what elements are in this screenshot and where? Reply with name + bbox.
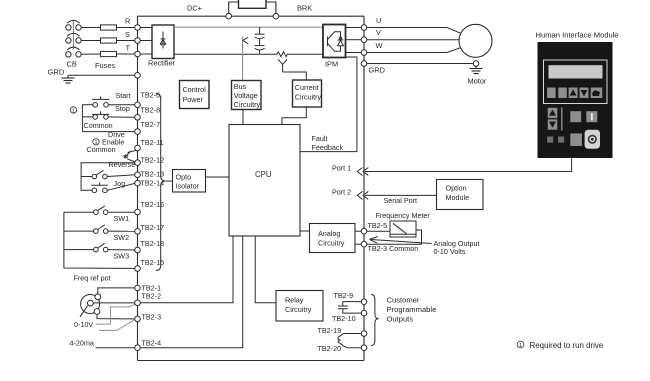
wire IPM to terminal V [346,39,362,41]
note circled 1 start stop [70,107,76,115]
svg-text:Common: Common [84,121,113,130]
svg-text:Customer: Customer [387,296,420,305]
wire current sense to current circuitry [283,72,307,80]
precharge tap wire gray [242,37,244,81]
svg-text:4-20ma: 4-20ma [70,339,94,348]
svg-text:TB2-20: TB2-20 [318,344,342,353]
capacitor link wire [259,39,261,46]
terminal TB2-2 [135,300,141,306]
svg-text:T: T [126,43,131,52]
wire 0-10V to TB2-2 [96,304,135,324]
relay contact TB2-9 TB2-10 [338,302,361,314]
svg-text:Motor: Motor [468,77,487,86]
HIM small key 2 [558,137,564,143]
terminal TB2-4 [135,345,141,351]
terminal TB2-3 right [361,241,367,247]
svg-text:GRD: GRD [369,66,385,75]
IPM IGBT symbol [328,32,344,52]
HIM display key 3 up arrow [569,88,578,99]
svg-text:Serial Port: Serial Port [384,196,418,205]
svg-text:TB2-3 Common: TB2-3 Common [368,244,419,253]
wire IPM to terminal W [346,52,362,54]
wire fuse 2 to terminal S [117,40,135,42]
svg-text:CB: CB [67,60,77,69]
svg-text:TB2-11: TB2-11 [141,138,164,147]
wire SW1 to TB2-16 [108,211,135,213]
capacitor C1 [255,34,265,39]
wire bottom rail of drive enclosure [138,360,365,362]
wire DC+ bus rectifier to IPM [174,26,323,28]
svg-text:Reverse: Reverse [109,160,136,169]
wire pot wiper to TB2-2 [93,302,134,304]
terminal TB2-10 [361,310,367,316]
rectifier SCR symbol [160,32,165,49]
start pushbutton [92,96,109,107]
terminal TB2-15 [135,266,141,272]
svg-text:TB2-2: TB2-2 [142,292,162,301]
svg-text:TB2-7: TB2-7 [141,120,161,129]
wire pot bottom to TB2-3 [97,314,135,319]
fault feedback wire IPM to CPU [300,57,357,152]
terminal U [361,25,367,31]
svg-text:Circuitry: Circuitry [234,100,261,109]
HIM display key 1 [547,88,556,99]
wire start to TB2-6 [108,104,134,106]
HIM display key 2 [558,88,567,99]
svg-text:SW2: SW2 [114,233,130,242]
box Option Module [437,180,484,210]
terminal TB2-12 [135,160,141,166]
svg-text:Start: Start [116,91,131,100]
terminal W [361,50,367,56]
circuit breaker CB pole 1 [66,20,82,30]
ground symbol motor [470,66,483,73]
svg-text:TB2-13: TB2-13 [141,170,165,179]
circuit breaker CB pole 3 [66,47,82,57]
svg-text:TB2-17: TB2-17 [141,223,165,232]
wire common to TB2-7 [82,131,134,133]
svg-text:1: 1 [519,343,522,349]
svg-text:Power: Power [183,95,204,104]
svg-text:Option: Option [446,184,467,193]
wire right rail of drive enclosure [363,16,365,360]
wire 0-10V to TB2-3 [99,320,135,331]
capacitor C2 [255,46,265,50]
wire DC+ terminal to brake resistor [229,2,239,13]
svg-text:TB2-16: TB2-16 [141,200,165,209]
pot terminal bottom [94,309,100,315]
terminal TB2-11 [135,145,141,151]
wire SW2 to TB2-17 [108,230,135,232]
frequency meter needle [393,223,407,234]
svg-text:1: 1 [72,108,75,114]
terminal T [135,51,141,57]
HIM jog key [585,130,600,149]
terminal R [135,25,141,31]
SW1 switch [94,206,108,215]
svg-text:Feedback: Feedback [312,143,344,152]
wire DC- bus shunt to IPM [287,53,323,55]
svg-text:U: U [376,16,381,25]
terminal TB2-1 [135,285,141,291]
wire stop to TB2-8 [108,116,134,118]
wire frequency meter return to TB2-3 [367,230,422,244]
wire DC- bus rectifier to shunt [174,53,277,55]
svg-text:SW1: SW1 [114,214,130,223]
svg-text:0-10V: 0-10V [74,320,93,329]
drive enable contact [123,150,137,162]
freq ref potentiometer body [81,295,100,314]
note circled 1 required [517,341,524,349]
svg-text:SW3: SW3 [114,252,130,261]
svg-text:Port 1: Port 1 [332,163,351,172]
IPM box [323,25,346,58]
terminal TB2-18 [135,247,141,253]
box Relay Circuitry [276,291,323,322]
circuit breaker CB pole 2 [66,33,82,43]
box Analog Circuitry [310,224,356,253]
svg-text:Outputs: Outputs [387,315,414,324]
wire terminal T to rectifier [140,53,152,55]
wire terminal S to rectifier [140,40,152,42]
wire opto isolator to CPU [206,176,230,178]
wire CB pole1 to fuse 1 [81,27,100,29]
wire CPU to analog circuitry [300,230,310,232]
analog output annotation arrow [370,237,432,244]
wire CB pole2 to fuse 2 [81,40,100,42]
wire SW common bus to TB2-15 [64,212,135,268]
svg-text:Fault: Fault [312,134,328,143]
svg-text:Rectifier: Rectifier [148,58,176,67]
wire terminal R to rectifier [140,27,152,29]
svg-text:DC+: DC+ [187,4,202,13]
terminal TB2-7 [135,129,141,135]
wire pot top to TB2-1 [98,288,135,294]
box Opto Isolator [173,170,206,193]
svg-text:V: V [376,28,381,37]
wire V to motor [367,39,459,41]
brace TB2 input group [156,94,166,271]
svg-text:TB2-8: TB2-8 [141,106,161,115]
capacitor C2 bottom wire [259,50,261,54]
wire Port 1 line to HIM [365,171,572,173]
wire TB2-2 to CPU [140,236,233,303]
HIM down key [548,119,558,129]
terminal TB2-3 [135,316,141,322]
svg-text:TB2-4: TB2-4 [142,338,162,347]
HIM display key 5 hand [591,88,603,99]
wire 4-20ma to TB2-4 [96,347,135,349]
terminal GRD right [361,61,367,67]
svg-text:TB2-10: TB2-10 [332,314,356,323]
pot terminal top [95,294,101,300]
frequency meter box [390,221,416,237]
wire CPU to relay circuitry [255,236,276,303]
wire jog to TB2-14 [107,183,135,190]
svg-text:Control: Control [183,85,207,94]
precharge contact symbol [243,37,248,44]
svg-text:GRD: GRD [48,68,65,77]
fuse F1 [101,25,117,30]
wire IPM to terminal U [346,27,362,29]
motor ground terminal [473,61,479,67]
wire reverse jog common to TB2-12 [81,163,135,191]
terminal TB2-13 [135,172,141,178]
svg-text:TB2-5: TB2-5 [368,221,388,230]
svg-text:R: R [125,16,130,25]
HIM display key 4 down arrow [580,88,589,99]
pot wiper terminal [88,300,94,306]
terminal TB2-6 [135,102,141,108]
svg-text:TB2-19: TB2-19 [318,326,342,335]
svg-text:TB2-12: TB2-12 [141,155,165,164]
wire TB2-4 to CPU [140,236,242,348]
svg-text:Circuitry: Circuitry [285,305,312,314]
svg-text:Programmable: Programmable [387,305,437,314]
terminal TB2-20 [361,345,367,351]
terminal TB2-14 [135,180,141,186]
svg-text:Stop: Stop [115,104,130,113]
wire W to motor [367,47,462,52]
svg-text:IPM: IPM [325,59,338,68]
svg-text:Port 2: Port 2 [332,187,351,196]
svg-text:BRK: BRK [297,4,312,13]
SW3 switch [94,243,108,252]
wire left rail of drive enclosure [137,16,139,360]
HIM up key [548,108,558,118]
port 2 arrows [357,191,368,199]
HIM LCD display [549,65,603,78]
svg-text:Current: Current [295,83,319,92]
svg-text:TB2-9: TB2-9 [334,291,354,300]
SW2 switch [94,225,108,234]
svg-text:Opto: Opto [176,172,192,181]
terminal GRD left [135,73,141,79]
svg-text:W: W [376,41,383,50]
svg-text:CPU: CPU [255,170,272,179]
svg-text:Freq ref pot: Freq ref pot [74,274,111,283]
shunt resistor zigzag [277,52,287,57]
brace customer programmable outputs [371,294,379,345]
svg-text:Circuitry: Circuitry [318,239,345,248]
terminal BRK [273,13,279,19]
HIM display frame [544,60,608,104]
svg-text:TB2-6: TB2-6 [141,91,161,100]
terminal S [135,38,141,44]
svg-text:Bus: Bus [234,82,247,91]
note circled 1 enable [93,139,99,147]
svg-text:Module: Module [446,193,470,202]
ground symbol left [62,75,75,83]
svg-text:Fuses: Fuses [95,61,115,70]
terminal TB2-8 [135,115,141,121]
rectifier box [152,25,174,59]
terminal TB2-16 [135,209,141,215]
wire start stop common bus [82,105,93,132]
pot wiper arm [80,306,88,317]
capacitor C1 wire [259,27,261,34]
wire brace to opto isolator [166,180,173,182]
svg-text:0-10 Volts: 0-10 Volts [434,247,466,256]
current sense taps Y symbol [278,59,287,72]
wire CB pole3 to fuse 3 [81,53,100,55]
terminal TB2-9 [361,299,367,305]
reverse switch [92,170,107,179]
HIM stop key [586,111,597,122]
box Current Circuitry [293,80,322,107]
svg-text:Relay: Relay [285,295,304,304]
fuse F2 [101,38,117,43]
wire U to motor [367,28,462,34]
terminal TB2-19 [361,331,367,337]
box Control Power [180,81,210,109]
terminal V [361,37,367,43]
wire analog circuitry to TB2-3 common [355,243,361,245]
stop pushbutton [92,111,109,119]
wire HIM drop line [571,158,573,172]
box Bus Voltage Circuitry [232,81,262,110]
jog pushbutton [91,182,108,192]
terminal DC+ [226,13,232,19]
motor M1 [459,24,492,57]
HIM panel [538,42,613,158]
svg-text:Frequency Meter: Frequency Meter [376,211,431,220]
frequency meter scale line [390,233,416,235]
HIM key divider [561,108,563,131]
terminal TB2-17 [135,229,141,235]
wire SW3 to TB2-18 [108,249,135,251]
svg-text:Common: Common [87,145,116,154]
HIM small key 1 [547,137,553,143]
terminal TB2-5 [361,228,367,234]
svg-text:TB2-14: TB2-14 [141,179,165,188]
svg-text:Required to run drive: Required to run drive [530,341,604,350]
wire Port 2 line to option module [365,194,437,196]
brake resistor [239,0,267,8]
relay contact TB2-19 TB2-20 [338,334,361,348]
svg-text:Circuitry: Circuitry [295,92,322,101]
wire GRD right to motor ground [367,63,473,65]
circuit breaker trip linkage [72,21,74,50]
wire fuse 1 to terminal R [117,27,135,29]
svg-text:TB2-15: TB2-15 [141,258,165,267]
fuse F3 [101,51,117,56]
wire current circuitry to CPU [282,107,306,125]
wire BRK terminal to brake resistor [266,2,276,13]
wire top rail of drive enclosure [138,15,365,17]
svg-text:TB2-3: TB2-3 [142,312,162,321]
svg-text:Isolator: Isolator [176,181,200,190]
wire bus voltage circuitry to CPU [242,110,244,125]
wire analog circuitry to TB2-5 [355,230,361,232]
wire TB2-5 to frequency meter [367,230,390,232]
svg-text:S: S [125,30,130,39]
svg-text:Human Interface Module: Human Interface Module [536,31,619,40]
HIM start key [570,111,581,122]
port 1 arrows [357,168,368,176]
wire left ground to terminal [68,74,135,76]
svg-text:TB2-18: TB2-18 [141,239,165,248]
HIM medium key [570,133,582,146]
svg-text:Voltage: Voltage [234,91,258,100]
box CPU [229,125,300,237]
svg-text:Analog: Analog [318,229,340,238]
wire reverse to TB2-13 [107,175,135,177]
wire fuse 3 to terminal T [117,53,135,55]
